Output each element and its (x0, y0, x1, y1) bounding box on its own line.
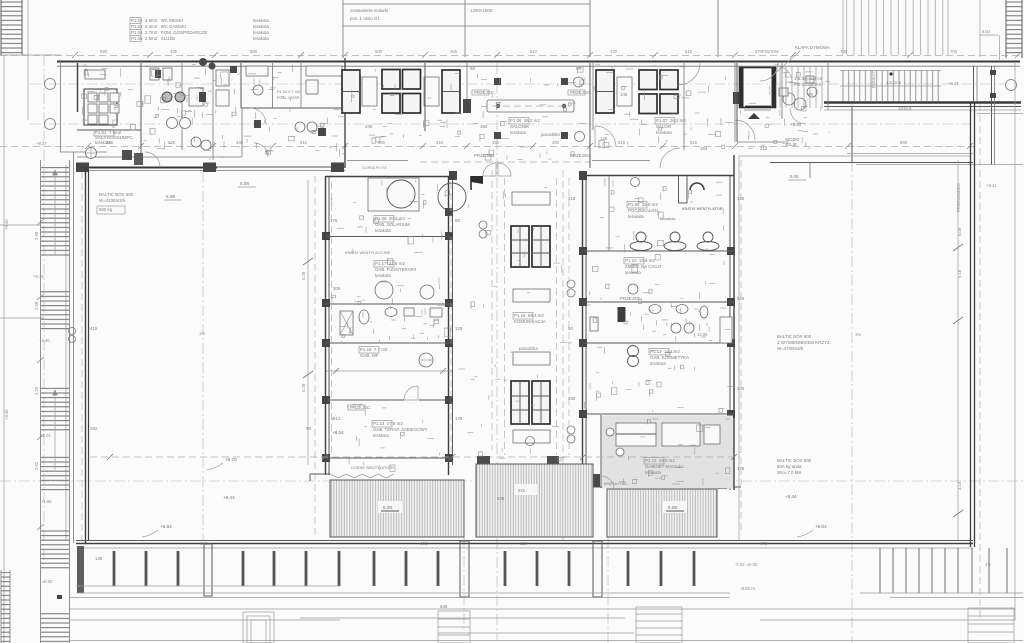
svg-text:+6.40: +6.40 (4, 219, 9, 230)
label P1.09 (628, 202, 723, 221)
svg-text:1%: 1% (985, 562, 991, 567)
massage room grey (602, 416, 733, 489)
svg-text:GORNA PLYTA: GORNA PLYTA (362, 166, 387, 170)
label P1.17 (375, 261, 416, 278)
svg-text:KRATKI WENTYLATOR: KRATKI WENTYLATOR (682, 207, 723, 211)
svg-text:terakota: terakota (373, 433, 389, 438)
corridor benches upper (511, 192, 550, 302)
svg-text:120: 120 (455, 326, 463, 331)
left outer wall upper (kitchen) (60, 63, 107, 152)
svg-text:675: 675 (760, 541, 768, 546)
texts near entrance (762, 29, 1000, 180)
svg-text:SALONIK: SALONIK (510, 124, 529, 129)
svg-text:P1.07 26.3 m2: P1.07 26.3 m2 (656, 118, 686, 123)
stair direction arrows (53, 170, 58, 470)
svg-text:GAB. FIZJOTERAPII: GAB. FIZJOTERAPII (375, 267, 416, 272)
svg-text:zestawienie stolarki: zestawienie stolarki (350, 8, 388, 13)
bottom steps left (243, 612, 274, 643)
svg-text:+8.44: +8.44 (785, 494, 797, 499)
svg-text:posadzka: posadzka (659, 217, 675, 221)
svg-text:posadzka: posadzka (540, 132, 560, 137)
svg-text:POZIOM: POZIOM (762, 49, 779, 54)
svg-text:KRATKA PODL.: KRATKA PODL. (604, 482, 628, 486)
svg-text:346: 346 (497, 496, 505, 501)
svg-text:282: 282 (90, 426, 98, 431)
dimension row y55 (72, 49, 1021, 58)
right stair corridor (824, 66, 1023, 165)
svg-text:5.08: 5.08 (668, 505, 677, 510)
svg-text:BALTIC BOX 500: BALTIC BOX 500 (99, 192, 134, 197)
svg-text:90: 90 (470, 66, 475, 71)
svg-text:2.62: 2.62 (34, 461, 39, 470)
svg-text:P1.12 19.0 m2: P1.12 19.0 m2 (645, 458, 675, 463)
right block walls (579, 155, 741, 490)
svg-text:420: 420 (610, 49, 618, 54)
left staircase shaft (41, 160, 76, 643)
scattered wall dimension numbers (90, 66, 912, 609)
svg-text:Wm=7.0 kW: Wm=7.0 kW (777, 470, 802, 475)
svg-text:+4.40: +4.40 (39, 338, 50, 343)
svg-text:510: 510 (690, 140, 698, 145)
fixture clutter (81, 64, 830, 485)
label P1.14 (373, 421, 428, 438)
entrance lobby fixtures (660, 63, 817, 168)
svg-text:PRZEJSC.: PRZEJSC. (350, 405, 371, 410)
svg-text:500 kg: 500 kg (99, 207, 113, 212)
svg-text:terakota: terakota (375, 228, 391, 233)
bottom steps right (968, 608, 1014, 643)
svg-text:P1.15 7.7 m2: P1.15 7.7 m2 (360, 347, 388, 352)
svg-text:P1.10 18.6 m2: P1.10 18.6 m2 (625, 258, 655, 263)
svg-text:GORNE WENTYLATORY: GORNE WENTYLATORY (351, 466, 395, 470)
svg-text:P1.18 68.4 m2: P1.18 68.4 m2 (514, 313, 544, 318)
reception desk (487, 100, 574, 112)
main top wall (57, 62, 1020, 67)
svg-text:PODEST: PODEST (871, 70, 876, 88)
dim line above terrace (90, 454, 740, 460)
svg-text:+8.27: +8.27 (36, 141, 47, 146)
svg-text:500: 500 (375, 49, 383, 54)
baltic box note right low (777, 458, 827, 537)
right deck pickets (860, 548, 1023, 593)
svg-text:1200×1500: 1200×1500 (470, 8, 493, 13)
svg-text:1%: 1% (855, 332, 861, 337)
svg-text:-0.02 ±0.00: -0.02 ±0.00 (735, 562, 758, 567)
svg-text:140: 140 (95, 556, 103, 561)
svg-text:+8.41: +8.41 (986, 183, 997, 188)
svg-text:P1.03 3.4m2 WC DAMSKI: P1.03 3.4m2 WC DAMSKI (131, 24, 186, 29)
svg-text:120: 120 (520, 541, 528, 546)
svg-text:430: 430 (236, 140, 244, 145)
lift shaft (739, 67, 776, 119)
sofa group left (salon P1.06) (342, 70, 460, 114)
solarium circles (362, 166, 466, 216)
svg-text:PRZEJSC.: PRZEJSC. (570, 90, 591, 95)
lobby ramp (735, 63, 828, 140)
kitchen partition walls (77, 58, 346, 168)
svg-text:518: 518 (618, 140, 626, 145)
svg-text:580: 580 (250, 49, 258, 54)
svg-text:poz. 1 okno O1: poz. 1 okno O1 (350, 16, 380, 21)
svg-text:P1.17 21.8 m2: P1.17 21.8 m2 (375, 261, 405, 266)
svg-text:+8.70: +8.70 (225, 457, 237, 462)
bottom wall (76, 541, 973, 544)
svg-text:GAB. TERAP. ZABIEGOWY: GAB. TERAP. ZABIEGOWY (373, 427, 428, 432)
svg-text:W=4700m3/h: W=4700m3/h (777, 346, 804, 351)
svg-text:90: 90 (306, 426, 311, 431)
svg-text:GAB. KOSMETYKA: GAB. KOSMETYKA (650, 355, 689, 360)
hall dimension strip (199, 172, 315, 540)
svg-text:terakota: terakota (253, 18, 269, 23)
corridor piers upper (463, 63, 568, 139)
corridor benches lower (511, 352, 550, 443)
svg-text:terakota: terakota (656, 130, 672, 135)
label P1.07 (656, 118, 686, 135)
svg-text:184: 184 (480, 124, 488, 129)
svg-text:1.58: 1.58 (34, 301, 39, 310)
waiting room seats (609, 176, 719, 251)
baltic box note upper (97, 181, 256, 214)
bottom terrain lines (70, 598, 1023, 641)
svg-text:590: 590 (100, 49, 108, 54)
svg-text:460: 460 (492, 140, 500, 145)
svg-text:846: 846 (518, 488, 526, 493)
room label P1.01 (95, 130, 134, 145)
left page edge ruler (1, 0, 60, 643)
svg-text:5.08: 5.08 (301, 383, 306, 392)
grid bubbles centre (574, 77, 585, 142)
baltic box note right mid (777, 332, 861, 351)
svg-text:5.04: 5.04 (982, 29, 991, 34)
svg-text:GAB. SOLARIUM: GAB. SOLARIUM (375, 222, 410, 227)
svg-text:90: 90 (808, 92, 813, 97)
svg-text:4.20: 4.20 (34, 386, 39, 395)
svg-text:465: 465 (450, 49, 458, 54)
svg-text:525: 525 (168, 140, 176, 145)
svg-text:+3.46: +3.46 (4, 409, 9, 420)
big hall top wall (76, 163, 345, 173)
svg-text:515: 515 (685, 49, 693, 54)
svg-text:BALTIC BOX 600: BALTIC BOX 600 (777, 458, 812, 463)
svg-text:posadzka: posadzka (518, 346, 538, 351)
kitchen table and chairs (84, 70, 119, 125)
kratki note (345, 251, 391, 255)
corridor entrance doors (420, 162, 590, 176)
svg-text:610: 610 (530, 49, 538, 54)
svg-text:+8.44: +8.44 (223, 495, 235, 500)
svg-text:terakota: terakota (650, 361, 666, 366)
svg-text:terakota: terakota (253, 36, 269, 41)
svg-text:BALTIC BOX 600: BALTIC BOX 600 (777, 334, 812, 339)
dotted dim columns (332, 160, 742, 535)
svg-text:212: 212 (760, 146, 768, 151)
right big hall (735, 63, 1015, 620)
svg-text:P1.04 2.7 m2: P1.04 2.7 m2 (277, 89, 300, 94)
grid bubble H right (1006, 80, 1017, 91)
terrace hatch right (607, 489, 717, 537)
svg-text:GAB. WF: GAB. WF (360, 353, 379, 358)
colonnade (76, 541, 973, 597)
svg-text:164: 164 (700, 146, 708, 151)
vents note left (330, 466, 395, 485)
svg-text:90: 90 (455, 218, 460, 223)
label P1.15 (360, 347, 388, 358)
svg-text:PRZEWIDZIEC: PRZEWIDZIEC (956, 183, 961, 212)
svg-text:5.08: 5.08 (301, 271, 306, 280)
bottom steps centre (438, 611, 470, 643)
svg-text:415: 415 (90, 326, 98, 331)
svg-text:-0.02 m: -0.02 m (740, 586, 755, 591)
svg-text:145: 145 (620, 92, 628, 97)
svg-text:175: 175 (455, 416, 463, 421)
svg-text:310: 310 (436, 140, 444, 145)
svg-text:terakota: terakota (253, 30, 269, 35)
svg-text:12.08: 12.08 (697, 332, 708, 337)
svg-text:GABINET MASAZU: GABINET MASAZU (645, 464, 684, 469)
upper band lower wall stubs (347, 63, 684, 161)
svg-text:P1.05 2.5m2 SLUZB: P1.05 2.5m2 SLUZB (131, 36, 175, 41)
solarium block walls (322, 171, 457, 475)
svg-text:P1.13 14.4 m2: P1.13 14.4 m2 (650, 349, 680, 354)
svg-text:+8.04: +8.04 (332, 430, 344, 435)
svg-text:KRATKI WENTYLACYJNE: KRATKI WENTYLACYJNE (345, 251, 391, 255)
svg-text:terakota: terakota (645, 470, 661, 475)
svg-text:P1.02 4.5m2 WC MESKI: P1.02 4.5m2 WC MESKI (131, 18, 183, 23)
label P1.06 (510, 118, 560, 137)
svg-text:1:6 15.8: 1:6 15.8 (886, 80, 902, 85)
svg-text:305: 305 (333, 286, 341, 291)
svg-text:+8.04: +8.04 (815, 524, 827, 529)
terrace hatch middle (476, 464, 593, 537)
kitchen dark fittings (155, 58, 326, 136)
hall left wall double (74, 152, 89, 543)
svg-text:240: 240 (365, 124, 373, 129)
svg-text:W=4100m3/h: W=4100m3/h (99, 198, 126, 203)
svg-text:P1.14 27.8 m2: P1.14 27.8 m2 (373, 421, 403, 426)
svg-text:640: 640 (200, 541, 208, 546)
door arcs misc (145, 63, 778, 489)
svg-text:860: 860 (900, 140, 908, 145)
svg-text:614: 614 (333, 416, 341, 421)
svg-text:P1.08 20.4 m2: P1.08 20.4 m2 (375, 216, 405, 221)
svg-text:603: 603 (420, 541, 428, 546)
left edge bottom ruler (1, 570, 10, 643)
section flag marker (471, 176, 483, 190)
svg-text:5.08: 5.08 (790, 174, 799, 179)
hall level marks (142, 430, 344, 537)
svg-text:5.18: 5.18 (957, 269, 962, 278)
top centre partition table (343, 0, 718, 57)
svg-text:2.98: 2.98 (34, 231, 39, 240)
svg-text:+8.84: +8.84 (160, 524, 172, 529)
svg-text:POCZEKALNIA: POCZEKALNIA (628, 208, 659, 213)
left margin dims (0, 219, 44, 530)
svg-text:ZMIED. NA CIALO: ZMIED. NA CIALO (625, 264, 662, 269)
svg-text:PRZEJSC.: PRZEJSC. (570, 153, 591, 158)
svg-text:+5.76: +5.76 (33, 274, 44, 279)
svg-text:terakota: terakota (375, 273, 391, 278)
label P1.08 (375, 216, 410, 233)
svg-text:760: 760 (840, 49, 848, 54)
svg-text:560: 560 (378, 140, 386, 145)
label P1.13 (650, 349, 689, 366)
svg-text:+1.68: +1.68 (41, 499, 52, 504)
svg-text:425: 425 (170, 49, 178, 54)
room code boxes (94, 118, 675, 465)
wall between salons and corridor (425, 63, 593, 168)
svg-text:P1.04 2.7m2 POM. GOSPODARCZ: P1.04 2.7m2 POM. GOSPODARCZE (131, 30, 207, 35)
svg-text:KOMUNIKACJA: KOMUNIKACJA (514, 319, 546, 324)
svg-text:90: 90 (576, 66, 581, 71)
svg-text:1:6.33 padl ×2: 1:6.33 padl ×2 (794, 76, 823, 81)
svg-text:50A kg anda: 50A kg anda (777, 464, 802, 469)
terrace hatch left (330, 480, 464, 537)
svg-text:3.18: 3.18 (957, 481, 962, 490)
svg-text:+2.04: +2.04 (40, 433, 51, 438)
svg-text:terakota: terakota (253, 24, 269, 29)
svg-text:KLAPA DYMOWA: KLAPA DYMOWA (795, 45, 830, 50)
kitchen counters cluster (246, 66, 342, 95)
corridor label P1.18 (514, 313, 546, 351)
legend table (130, 18, 269, 42)
wc fixtures cluster (86, 68, 318, 165)
corridor bubbles (479, 221, 575, 446)
svg-text:P1.06 26.2 m2: P1.06 26.2 m2 (510, 118, 540, 123)
svg-text:1%: 1% (199, 331, 205, 336)
label P1.10 (625, 258, 662, 275)
left grid bubbles (45, 79, 56, 130)
svg-text:512: 512 (300, 140, 308, 145)
svg-text:+8.33: +8.33 (790, 122, 802, 127)
svg-text:terakota: terakota (510, 130, 526, 135)
svg-text:1015.8: 1015.8 (898, 106, 912, 111)
svg-text:400: 400 (552, 140, 560, 145)
terrace edge piers (310, 456, 559, 481)
ground level labels (735, 562, 991, 567)
top right corner ruler (1006, 0, 1022, 58)
label P1.12 (604, 458, 684, 486)
svg-text:P1.09 25.5 m2: P1.09 25.5 m2 (628, 202, 658, 207)
svg-text:700: 700 (950, 49, 958, 54)
svg-text:POM. GOSP.: POM. GOSP. (277, 95, 300, 100)
svg-text:5.08: 5.08 (166, 194, 175, 199)
bottom stair block centre-right (636, 607, 682, 643)
svg-text:645: 645 (440, 604, 448, 609)
dimension row y146 (85, 140, 973, 149)
top table texts (350, 8, 493, 21)
svg-text:terakota: terakota (95, 140, 111, 145)
svg-text:Z WYMIENNIKIEM KRZYZ.: Z WYMIENNIKIEM KRZYZ. (777, 340, 831, 345)
svg-text:terakota: terakota (628, 214, 644, 219)
svg-text:5.08: 5.08 (383, 505, 392, 510)
svg-text:PO CZESCI m: PO CZESCI m (794, 82, 823, 87)
svg-text:±0.00: ±0.00 (42, 579, 53, 584)
top right external stair treads (843, 0, 980, 57)
sofa group right (salon P1.07) (596, 70, 678, 114)
svg-text:5.08: 5.08 (240, 181, 249, 186)
wc row middle (590, 284, 732, 367)
przejscie tags (348, 90, 799, 410)
stair level labels (33, 141, 53, 584)
svg-text:JULIE: JULIE (785, 142, 797, 147)
svg-text:5.08: 5.08 (957, 227, 962, 236)
svg-text:+8.44: +8.44 (948, 81, 959, 86)
physio fixtures (340, 281, 442, 367)
